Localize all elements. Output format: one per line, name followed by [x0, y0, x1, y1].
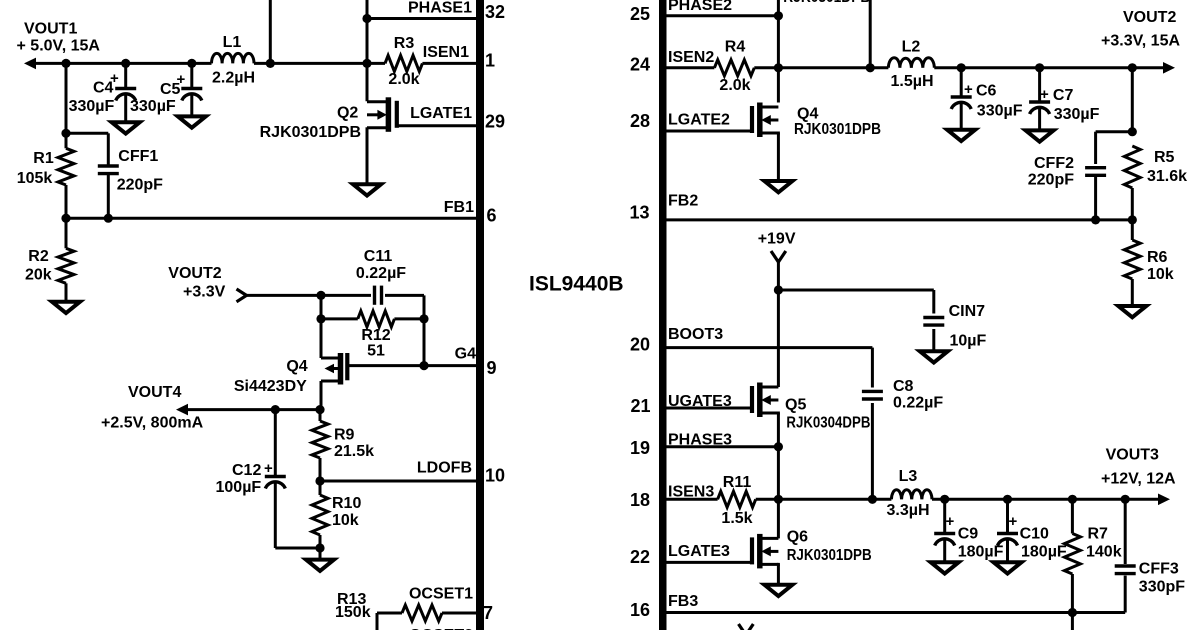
- svg-text:+: +: [177, 71, 186, 88]
- svg-text:R11: R11: [723, 474, 752, 491]
- inductor L3: [891, 490, 932, 500]
- svg-text:25: 25: [630, 4, 650, 24]
- svg-text:+: +: [946, 513, 955, 530]
- arrow VOUT4 output (left): [176, 404, 188, 416]
- supply arrow +19V: [771, 251, 786, 262]
- wire +19V to CIN7: [778, 289, 933, 292]
- svg-text:+: +: [264, 460, 273, 477]
- capacitor C5: [190, 63, 193, 88]
- resistor R6: [1131, 220, 1134, 240]
- svg-text:21.5k: 21.5k: [334, 443, 374, 460]
- svg-text:R4: R4: [725, 39, 746, 56]
- capacitor CFF1: [107, 133, 110, 166]
- svg-text:R5: R5: [1154, 149, 1175, 166]
- resistor R12: [321, 317, 358, 320]
- node junction VOUT3/R7: [1068, 495, 1077, 504]
- svg-text:FB3: FB3: [668, 593, 698, 610]
- svg-text:ISEN1: ISEN1: [423, 44, 469, 61]
- inductor L1: [212, 53, 255, 63]
- arrow VOUT3 output (right): [1158, 494, 1170, 506]
- svg-text:CIN7: CIN7: [949, 303, 986, 320]
- node junction FB1/R1: [61, 214, 70, 223]
- node junction PHASE2: [774, 11, 783, 20]
- wire L3 to VOUT3 output: [932, 498, 1158, 501]
- wire LDOFB to IC pin 10: [320, 480, 476, 483]
- wire ISEN3 from IC pin 18: [666, 498, 718, 501]
- node junction FB1/CFF1: [104, 214, 113, 223]
- svg-text:+ 5.0V, 15A: + 5.0V, 15A: [17, 38, 101, 55]
- ground (LDO divider): [306, 560, 334, 571]
- svg-text:R6: R6: [1147, 249, 1168, 266]
- wire CFF2 branch horizontal: [1096, 130, 1133, 133]
- node junction phase3/ISEN3: [774, 495, 783, 504]
- wire upper fet source vertical: [869, 0, 872, 68]
- svg-text:20: 20: [630, 335, 650, 355]
- wire C12 bottom to R10 bottom: [275, 547, 320, 550]
- wire +19V down to Q5 drain: [777, 290, 780, 387]
- svg-text:100µF: 100µF: [216, 479, 262, 496]
- svg-text:FB2: FB2: [668, 193, 698, 210]
- svg-text:CFF3: CFF3: [1139, 561, 1179, 578]
- wire phase node vertical (top to Q2 drain): [366, 0, 369, 101]
- wire BOOT3 from IC pin 20: [666, 346, 872, 349]
- svg-text:Q5: Q5: [785, 397, 806, 414]
- wire VOUT4 output: [185, 408, 321, 411]
- node junction FB2/CFF2: [1091, 215, 1100, 224]
- svg-text:+: +: [1009, 513, 1018, 530]
- wire L1 to phase node: [254, 62, 385, 65]
- node junction VOUT3/C9: [940, 495, 949, 504]
- node junction R12 right: [419, 314, 428, 323]
- svg-text:OCSET1: OCSET1: [409, 586, 473, 603]
- resistor R13: [376, 613, 379, 630]
- resistor R11: [718, 491, 756, 507]
- svg-text:10k: 10k: [332, 512, 359, 529]
- svg-text:16: 16: [630, 600, 650, 620]
- wire rail between C11 and R12 rows: [320, 295, 323, 319]
- svg-text:+: +: [1040, 86, 1049, 103]
- wire Q4 source to ground: [777, 133, 780, 181]
- node junction +3.3V rail: [316, 291, 325, 300]
- ground (Q2 source): [353, 184, 381, 195]
- capacitor C11: [373, 286, 376, 305]
- node junction PHASE3: [774, 442, 783, 451]
- svg-text:Si4423DY: Si4423DY: [234, 378, 307, 395]
- wire +3.3V to C11/R12 node: [247, 294, 372, 297]
- supply arrow (clipped at bottom): [739, 624, 754, 630]
- capacitor C6: [960, 68, 963, 97]
- svg-text:51: 51: [367, 343, 385, 360]
- wire LGATE1 gate to IC pin 29: [397, 124, 476, 127]
- ground (R6): [1118, 306, 1146, 317]
- node junction VOUT2/C7: [1035, 63, 1044, 72]
- resistor R10: [312, 495, 328, 535]
- node junction VOUT3/C10: [1003, 495, 1012, 504]
- wire phase2 vertical from top: [777, 0, 780, 103]
- svg-text:32: 32: [485, 2, 505, 22]
- svg-text:10: 10: [485, 466, 505, 486]
- resistor R5: [1124, 146, 1140, 188]
- wire G4 gate to IC pin 9: [347, 364, 476, 367]
- svg-text:+: +: [110, 70, 119, 87]
- svg-text:2.2µH: 2.2µH: [212, 70, 255, 87]
- svg-text:2.0k: 2.0k: [388, 71, 419, 88]
- svg-text:0.22µF: 0.22µF: [893, 395, 943, 412]
- svg-text:CFF2: CFF2: [1034, 155, 1074, 172]
- wire PHASE3 from IC pin 19: [666, 445, 778, 448]
- svg-text:R1: R1: [33, 150, 54, 167]
- wire VOUT1 output rail: [33, 62, 212, 65]
- node junction R1 top/CFF1: [61, 129, 70, 138]
- svg-text:1.5µH: 1.5µH: [890, 73, 933, 90]
- svg-text:R9: R9: [334, 427, 355, 444]
- wire R4 to phase2 node: [754, 66, 870, 69]
- svg-text:RJK0304DPB: RJK0304DPB: [786, 414, 870, 431]
- capacitor CIN7: [932, 290, 935, 314]
- wire C11/R12 node down to G4: [423, 319, 426, 366]
- svg-text:21: 21: [631, 396, 651, 416]
- svg-text:PHASE3: PHASE3: [668, 431, 732, 448]
- node junction PHASE1/vertical: [362, 14, 371, 23]
- wire ISEN2 from IC pin 24: [666, 66, 714, 69]
- node junction VOUT4/R9: [315, 405, 324, 414]
- capacitor CFF3: [1124, 499, 1127, 564]
- svg-text:22: 22: [630, 547, 650, 567]
- node junction VOUT1/C4: [121, 59, 130, 68]
- resistor R1: [65, 133, 68, 148]
- node junction LDOFB/R9/R10: [315, 476, 324, 485]
- svg-text:ISEN2: ISEN2: [668, 49, 714, 66]
- svg-text:180µF: 180µF: [1021, 544, 1067, 561]
- svg-text:ISEN3: ISEN3: [668, 484, 714, 501]
- arrow VOUT1 output (left): [24, 58, 36, 70]
- svg-text:19: 19: [630, 438, 650, 458]
- ground (C6): [947, 130, 975, 141]
- ground (C10): [994, 562, 1022, 573]
- resistor R3: [385, 55, 422, 71]
- svg-text:1.5k: 1.5k: [721, 510, 752, 527]
- svg-text:R10: R10: [332, 495, 361, 512]
- svg-text:FB1: FB1: [444, 199, 474, 216]
- svg-text:330µF: 330µF: [977, 103, 1023, 120]
- node junction R12 left: [316, 314, 325, 323]
- node junction G4 net: [419, 361, 428, 370]
- svg-text:10k: 10k: [1147, 266, 1174, 283]
- svg-text:Q4: Q4: [797, 105, 818, 122]
- svg-text:+2.5V, 800mA: +2.5V, 800mA: [101, 415, 204, 432]
- svg-text:G4: G4: [455, 346, 476, 363]
- ground (R2): [52, 302, 80, 313]
- transistor Q4 (Si4423DY, PMOS): [338, 353, 344, 385]
- svg-text:220pF: 220pF: [117, 177, 163, 194]
- ground (Q4 lower fet): [764, 181, 792, 192]
- ground (C9): [931, 562, 959, 573]
- svg-text:L1: L1: [223, 34, 242, 51]
- wire C11 right to corner: [385, 294, 424, 297]
- svg-text:Q6: Q6: [787, 529, 808, 546]
- svg-text:330pF: 330pF: [1139, 579, 1185, 596]
- resistor R4: [714, 60, 754, 76]
- svg-text:RJK0301DPB: RJK0301DPB: [260, 124, 361, 141]
- svg-text:RJK0301DPB: RJK0301DPB: [794, 121, 881, 138]
- ground (C4): [112, 122, 140, 133]
- svg-text:PHASE2: PHASE2: [668, 0, 732, 14]
- svg-text:C6: C6: [976, 83, 997, 100]
- wire LGATE3 from IC pin 22: [666, 561, 752, 564]
- svg-text:20k: 20k: [25, 267, 52, 284]
- svg-text:2.0k: 2.0k: [719, 77, 750, 94]
- svg-text:UGATE3: UGATE3: [668, 393, 732, 410]
- svg-text:L2: L2: [902, 39, 921, 56]
- svg-text:R12: R12: [361, 327, 390, 344]
- node junction VOUT1/C5: [187, 59, 196, 68]
- svg-text:180µF: 180µF: [958, 544, 1004, 561]
- svg-text:LGATE3: LGATE3: [668, 543, 730, 560]
- node junction +19V/CIN7: [774, 285, 783, 294]
- node junction FB2/R5/R6: [1128, 215, 1137, 224]
- svg-text:24: 24: [630, 55, 650, 75]
- svg-text:VOUT4: VOUT4: [128, 384, 181, 401]
- svg-text:330µF: 330µF: [69, 98, 115, 115]
- input chevron +3.3V: [237, 289, 247, 302]
- transistor Q5 (RJK0304DPB): [757, 383, 763, 418]
- wire UGATE3 from IC pin 21: [666, 407, 752, 410]
- svg-text:28: 28: [630, 111, 650, 131]
- wire phase3 down to ISEN3 node: [777, 447, 780, 500]
- transistor Q6 (RJK0301DPB): [757, 534, 763, 569]
- capacitor C12: [274, 410, 277, 477]
- svg-text:RJK0301DPB: RJK0301DPB: [783, 0, 870, 6]
- IC ISL9440B left boundary bar: [476, 0, 484, 630]
- svg-text:C7: C7: [1053, 87, 1074, 104]
- arrow VOUT2 output (right): [1163, 62, 1175, 74]
- svg-text:C10: C10: [1020, 526, 1049, 543]
- wire Q2 source to ground: [366, 127, 369, 184]
- svg-text:+3.3V, 15A: +3.3V, 15A: [1101, 33, 1180, 50]
- svg-text:R2: R2: [28, 248, 49, 265]
- svg-text:140k: 140k: [1086, 544, 1122, 561]
- wire LGATE2 from IC pin 28: [666, 130, 752, 133]
- capacitor CFF2: [1094, 132, 1097, 164]
- node junction VOUT1/R1: [61, 59, 70, 68]
- svg-text:Q4: Q4: [286, 358, 307, 375]
- node junction R10/C12 bottom: [315, 543, 324, 552]
- svg-text:10µF: 10µF: [950, 333, 987, 350]
- node junction phase2/R4: [774, 63, 783, 72]
- svg-text:C9: C9: [958, 526, 979, 543]
- svg-text:CFF1: CFF1: [118, 148, 158, 165]
- capacitor C4: [124, 63, 127, 88]
- svg-text:330µF: 330µF: [130, 98, 176, 115]
- svg-text:+: +: [964, 81, 973, 98]
- svg-text:105k: 105k: [17, 170, 53, 187]
- svg-text:Q2: Q2: [337, 105, 358, 122]
- ground (C5): [178, 116, 206, 127]
- resistor R2: [65, 218, 68, 248]
- svg-text:VOUT3: VOUT3: [1106, 447, 1159, 464]
- svg-text:31.6k: 31.6k: [1147, 168, 1187, 185]
- svg-text:LDOFB: LDOFB: [417, 460, 472, 477]
- svg-text:C12: C12: [232, 462, 261, 479]
- node junction phase2/upper fet: [866, 63, 875, 72]
- node junction phase/R3: [362, 59, 371, 68]
- svg-text:VOUT2: VOUT2: [1123, 9, 1176, 26]
- capacitor C10: [1006, 499, 1009, 533]
- wire +19V down: [777, 262, 780, 290]
- node junction phase3/C8: [868, 495, 877, 504]
- svg-text:6: 6: [487, 206, 497, 226]
- capacitor C9: [943, 499, 946, 533]
- wire FB1 to IC pin 6: [66, 217, 476, 220]
- svg-text:9: 9: [487, 358, 497, 378]
- svg-text:150k: 150k: [335, 604, 371, 621]
- wire L2 to VOUT2 output: [934, 66, 1164, 69]
- svg-text:VOUT2: VOUT2: [168, 265, 221, 282]
- svg-text:LGATE1: LGATE1: [410, 105, 472, 122]
- wire R11 to phase3 node: [756, 498, 892, 501]
- svg-text:VOUT1: VOUT1: [24, 21, 77, 38]
- ground (C7): [1026, 130, 1054, 141]
- wire R1 top to CFF1 top: [66, 132, 108, 135]
- wire R3 to IC pin 1 (ISEN1): [422, 62, 476, 65]
- svg-text:7: 7: [483, 603, 493, 623]
- IC ISL9440B right boundary bar: [659, 0, 667, 630]
- resistor R9: [319, 410, 322, 421]
- node junction FB3/R7: [1068, 608, 1077, 617]
- svg-text:220pF: 220pF: [1028, 172, 1074, 189]
- wire FB2 to IC pin 13: [666, 218, 1132, 221]
- svg-text:18: 18: [630, 490, 650, 510]
- svg-text:C8: C8: [893, 378, 914, 395]
- wire VOUT2 down to R5: [1131, 68, 1134, 132]
- inductor L2: [870, 66, 888, 69]
- svg-text:R7: R7: [1088, 526, 1109, 543]
- svg-text:29: 29: [485, 112, 505, 132]
- wire Q6 source to ground: [777, 564, 780, 584]
- svg-text:L3: L3: [899, 468, 918, 485]
- wire to ground (LDO): [319, 548, 322, 560]
- svg-text:+3.3V: +3.3V: [183, 284, 226, 301]
- node junction VOUT4/C12: [271, 405, 280, 414]
- svg-text:LGATE2: LGATE2: [668, 112, 730, 129]
- svg-text:RJK0301DPB: RJK0301DPB: [787, 547, 872, 564]
- wire PHASE1 to IC pin 32: [367, 17, 476, 20]
- svg-text:1: 1: [485, 51, 495, 71]
- svg-text:C11: C11: [364, 248, 393, 265]
- svg-text:+12V, 12A: +12V, 12A: [1101, 471, 1176, 488]
- svg-text:PHASE1: PHASE1: [408, 0, 472, 17]
- node junction VOUT2/C6: [957, 63, 966, 72]
- node junction R5/CFF2: [1128, 127, 1137, 136]
- ground (CIN7): [920, 351, 948, 362]
- resistor R7: [1071, 499, 1074, 533]
- capacitor C8: [862, 390, 883, 393]
- svg-text:ISL9440B: ISL9440B: [529, 273, 624, 296]
- ground (Q6): [764, 585, 792, 596]
- wire BOOT3 down to C8: [871, 348, 874, 388]
- wire phase3 down to Q6 drain: [777, 499, 780, 538]
- wire Q5 source to PHASE3: [777, 413, 780, 447]
- capacitor C7: [1038, 68, 1041, 102]
- svg-text:330µF: 330µF: [1054, 106, 1100, 123]
- wire Q4 drain down to VOUT4 rail: [320, 381, 323, 410]
- node junction VOUT3/CFF3: [1121, 495, 1130, 504]
- svg-text:0.22µF: 0.22µF: [356, 265, 406, 282]
- node junction phase/vertical: [266, 59, 275, 68]
- wire PHASE2 from IC pin 25: [666, 14, 778, 17]
- wire rail down to Q4 source: [320, 319, 323, 358]
- svg-text:BOOT3: BOOT3: [668, 326, 723, 343]
- svg-text:13: 13: [630, 203, 650, 223]
- svg-text:+19V: +19V: [758, 231, 796, 248]
- node junction VOUT2/R5: [1128, 63, 1137, 72]
- wire vertical from top to VOUT1 rail: [269, 0, 272, 63]
- wire R7 node down (clipped): [1071, 613, 1074, 630]
- wire FB3 to IC pin 16: [666, 611, 1125, 614]
- svg-text:3.3µH: 3.3µH: [886, 502, 929, 519]
- transistor Q4 (RJK0301DPB, lower fet phase2): [757, 103, 763, 138]
- transistor Q2 (RJK0301DPB): [386, 97, 392, 132]
- wire VOUT1 node down to R1: [65, 63, 68, 133]
- svg-text:R3: R3: [394, 35, 415, 52]
